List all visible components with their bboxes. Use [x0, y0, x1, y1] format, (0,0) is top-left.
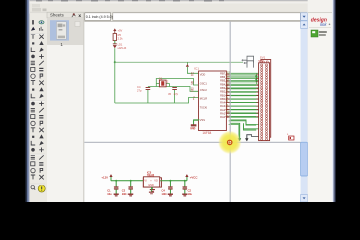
small part P5	[289, 136, 294, 140]
wires: data bus to connector	[230, 75, 256, 117]
connector SV1	[256, 59, 269, 141]
cursor ring	[228, 140, 232, 144]
svg-text:RB7: RB7	[220, 71, 226, 75]
faint upper icons left	[32, 4, 40, 7]
svg-text:RB2: RB2	[220, 90, 226, 94]
svg-text:link: link	[320, 22, 327, 27]
svg-text:+12V: +12V	[101, 176, 108, 180]
dark jumper wire above connector	[242, 56, 254, 62]
svg-text:RB5: RB5	[220, 79, 226, 83]
power arrow +12V	[101, 174, 112, 180]
svg-text:OSC2: OSC2	[200, 88, 208, 92]
svg-text:16F84: 16F84	[202, 131, 211, 135]
crosshair cursor lines	[84, 21, 300, 202]
svg-text:SV1: SV1	[258, 59, 264, 63]
cursor ring	[228, 140, 232, 144]
svg-text:MCLR: MCLR	[200, 97, 207, 101]
regulator IC3 78L05	[143, 170, 159, 187]
svg-text:78L05: 78L05	[147, 173, 155, 177]
capacitor C5	[168, 87, 179, 103]
capacitor C4	[162, 180, 173, 197]
left tool palette icons	[32, 20, 34, 24]
power arrow +5V (top left)	[113, 28, 122, 33]
svg-text:RA1: RA1	[220, 112, 226, 116]
capacitor C1	[107, 180, 118, 196]
capacitor C4	[162, 180, 174, 196]
svg-text:IC1: IC1	[194, 66, 199, 70]
ground arrow 1	[238, 138, 241, 141]
wire: MCLR bottom rail	[115, 98, 199, 104]
svg-text:10u: 10u	[107, 192, 112, 196]
dotted separator	[309, 26, 331, 29]
connector SV1	[259, 55, 271, 137]
power arrow +5V (at IC)	[186, 62, 199, 73]
thumbnail area	[47, 18, 84, 202]
IC1 16F84 box	[194, 66, 226, 134]
svg-text:+5V: +5V	[118, 29, 123, 33]
small scroll box top right	[75, 22, 80, 27]
svg-text:RA3: RA3	[220, 104, 226, 108]
svg-text:RA4: RA4	[220, 101, 226, 105]
svg-text:Sheets: Sheets	[50, 13, 64, 18]
green icon	[311, 30, 318, 37]
svg-text:RA2: RA2	[220, 108, 226, 112]
wire: lower step nets	[230, 120, 256, 138]
ground arrow 1	[237, 138, 240, 141]
svg-text:VDD: VDD	[200, 73, 206, 77]
svg-text:VI: VI	[144, 180, 147, 183]
wire: osc rail	[148, 86, 175, 88]
capacitor C2	[182, 180, 192, 196]
crystal Q1	[156, 76, 169, 86]
junction dots near connector	[255, 75, 257, 82]
svg-text:RA0: RA0	[220, 115, 226, 119]
power arrow +12V	[101, 174, 112, 181]
capacitor C3	[122, 180, 134, 196]
LED D1	[113, 41, 127, 50]
svg-text:RB3: RB3	[220, 86, 226, 90]
svg-text:VSS: VSS	[200, 118, 205, 122]
svg-text:2.2k: 2.2k	[118, 36, 124, 40]
wire: OSC1 riser	[156, 79, 198, 87]
junction dots near connector	[256, 73, 258, 84]
svg-text:45: 45	[168, 92, 171, 96]
yellow highlight glow	[218, 130, 242, 154]
toolbar + panels base	[30, 0, 332, 202]
pin stubs + olive numbers right	[226, 75, 230, 117]
svg-text:RB1: RB1	[220, 93, 226, 97]
svg-text:100n: 100n	[122, 192, 128, 196]
regulator IC3 78L05	[143, 171, 161, 188]
svg-text:uAHL43: uAHL43	[118, 47, 127, 50]
small part P5	[287, 134, 294, 140]
capacitor C1	[107, 180, 118, 197]
svg-text:GND: GND	[148, 184, 154, 187]
svg-text:RB4: RB4	[220, 82, 226, 86]
panel right border	[83, 12, 84, 202]
wire: OSC2 link	[175, 87, 199, 92]
svg-text:0.1 inch (4.9 5.0): 0.1 inch (4.9 5.0)	[86, 15, 113, 19]
svg-text:+VCC: +VCC	[190, 176, 198, 180]
wire: long VCC rail	[115, 61, 243, 63]
wire: 12V rail	[111, 180, 187, 182]
ground at regulator	[149, 187, 154, 194]
svg-text:27p: 27p	[174, 92, 179, 96]
top toolbar strip	[30, 0, 332, 14]
wire: lower step nets	[229, 121, 259, 138]
command dropdown button	[301, 13, 308, 21]
pin icon	[72, 13, 76, 17]
pin stubs + olive numbers right	[226, 73, 228, 117]
svg-text:10u: 10u	[188, 192, 193, 196]
svg-text:RB0: RB0	[220, 97, 226, 101]
svg-text:C4: C4	[137, 85, 141, 89]
window left border	[26, 0, 28, 202]
svg-text:OSC1: OSC1	[200, 81, 208, 85]
pin numbers left	[191, 71, 195, 99]
capacitor C2	[182, 180, 192, 197]
svg-text:T0CKI: T0CKI	[200, 106, 208, 110]
yellow highlight glow	[218, 131, 241, 154]
crosshair cursor lines	[84, 22, 300, 202]
window right border	[332, 0, 333, 202]
sheets panel header	[47, 12, 84, 18]
dark jumper wire above connector	[244, 61, 254, 68]
header row separator	[30, 11, 332, 14]
svg-text:100n: 100n	[162, 192, 168, 196]
ground at VSS	[190, 120, 199, 130]
ground at regulator	[150, 187, 155, 192]
top cut-off toolbar dark icon bottoms	[30, 0, 332, 1]
ground arrow 2 + dark wire	[245, 135, 261, 141]
junction on VCC rail	[114, 61, 116, 63]
ground at VSS	[190, 120, 198, 130]
wires: data bus to connector	[229, 73, 259, 117]
pin numbers left	[191, 73, 195, 101]
resistor R5	[113, 33, 123, 43]
svg-text:27p: 27p	[137, 88, 142, 92]
wire: 12V rail	[111, 180, 187, 182]
capacitor C3	[122, 180, 133, 197]
power arrow +VCC	[185, 174, 197, 181]
ground arrow 2 + dark wire	[246, 135, 259, 142]
power arrow +VCC	[185, 174, 197, 180]
selected sheet thumbnail	[50, 20, 69, 40]
svg-text:RB6: RB6	[220, 75, 226, 79]
capacitor C4	[137, 85, 150, 103]
svg-text:GND: GND	[190, 128, 195, 130]
wire: LED column down	[114, 48, 116, 103]
thumb	[301, 142, 308, 176]
svg-text:Q1: Q1	[159, 76, 163, 80]
svg-text:VO: VO	[154, 180, 158, 183]
